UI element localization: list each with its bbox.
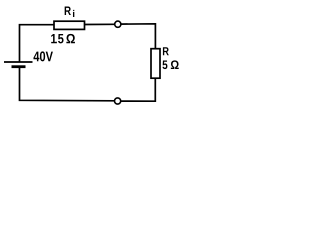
resistor R (151, 49, 160, 78)
label Ri (R) (65, 7, 71, 15)
wire bottom-left segment + left vertical lower (20, 67, 115, 101)
resistor Ri (54, 21, 85, 29)
value 5 ohm (163, 60, 179, 69)
wire top-right segment + right vertical upper (121, 24, 156, 50)
value 1.5 ohm (51, 34, 75, 44)
label R (163, 47, 169, 55)
wire left vertical + top-left segment (20, 25, 55, 62)
label Ri (subscript i) (73, 10, 74, 17)
terminal node top (115, 21, 121, 27)
battery long plate (4, 61, 33, 63)
wire top-middle segment (85, 23, 116, 25)
battery short plate (12, 65, 26, 68)
terminal node bottom (115, 98, 121, 104)
label 40V (33, 51, 52, 61)
wire right vertical lower + bottom-right segment (121, 78, 155, 101)
